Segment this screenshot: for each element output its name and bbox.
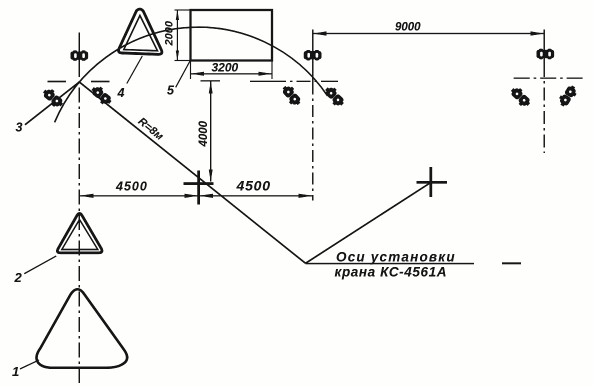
dimension 2000 line <box>176 10 178 61</box>
middle axis vertical line <box>312 30 314 83</box>
dimension 3200 left extension <box>190 61 192 80</box>
triangle 4 inner line <box>124 16 158 51</box>
right axis vertical dash-dot <box>543 64 545 153</box>
svg-text:9000: 9000 <box>395 22 421 34</box>
svg-text:4500: 4500 <box>115 180 148 194</box>
dimension 4000 top arrow <box>209 82 213 94</box>
caption shelf line end dash <box>502 262 521 264</box>
outrigger pads right lower-left <box>508 85 533 109</box>
4500 right arrow <box>299 194 313 198</box>
right axis horizontal dash-dot <box>514 77 583 79</box>
leader for label 1 <box>20 360 39 369</box>
left crane diagonal axis to label 3 <box>25 82 79 125</box>
svg-text:4: 4 <box>117 86 125 100</box>
middle axis horizontal dash-dot <box>250 80 338 82</box>
left crane vertical axis dash-dot lower part <box>78 62 80 386</box>
leader line to cross B <box>306 183 431 264</box>
4500 middle left-pointing arrow <box>199 194 213 198</box>
dimension 3200 line <box>191 73 273 75</box>
crane position cross B <box>417 167 448 197</box>
outrigger pads middle top <box>304 50 322 60</box>
outrigger pads middle lower-right <box>322 84 347 109</box>
svg-text:2000: 2000 <box>164 20 176 46</box>
radius line R=8m diagonal <box>79 82 305 263</box>
right axis vertical line <box>543 30 545 65</box>
leader for label 2 <box>24 256 56 274</box>
dimension 3200 right arrow <box>259 72 272 76</box>
outrigger pads left crane top <box>71 50 89 60</box>
dimension 2000 top extension <box>175 9 191 11</box>
outrigger pads left crane lower-right <box>89 84 114 108</box>
dimension 2000 top arrow <box>176 10 179 20</box>
4500 left arrow at axis <box>80 194 94 198</box>
leader for label 4 <box>127 56 143 84</box>
svg-text:Оси установки: Оси установки <box>336 250 456 265</box>
dimension 4000 line <box>210 81 212 181</box>
svg-text:2: 2 <box>14 270 23 285</box>
dimension 4000 top tick <box>201 80 221 82</box>
svg-text:крана КС-4561А: крана КС-4561А <box>335 265 448 280</box>
triangle 2 inner line <box>62 220 98 250</box>
truck crane gabarit triangle 2 <box>57 214 102 253</box>
left crane vertical axis <box>78 33 80 63</box>
dimension 9000 line <box>313 33 544 35</box>
svg-text:1: 1 <box>12 364 19 379</box>
dimension 4500 4500 chained line <box>79 195 312 197</box>
crane position cross A <box>184 171 214 205</box>
outrigger pads middle lower-left <box>279 83 303 108</box>
svg-text:3200: 3200 <box>212 61 239 75</box>
4500 middle right-pointing arrow <box>185 194 199 198</box>
label 5 leader <box>176 61 190 87</box>
outrigger pads right lower-right <box>557 83 579 109</box>
dimension 2000 bottom extension <box>175 60 191 62</box>
outrigger pads left crane lower-left <box>40 86 65 110</box>
svg-text:4500: 4500 <box>236 178 271 194</box>
dimension 9000 left arrow <box>313 31 326 35</box>
caption shelf line <box>306 263 475 265</box>
middle axis vertical dash-dot <box>312 83 314 201</box>
left crane horizontal axis dashes <box>48 81 110 83</box>
dimension 9000 right arrow <box>531 31 544 35</box>
crane reach arc R=8m <box>55 27 328 122</box>
svg-text:3: 3 <box>16 121 23 135</box>
dimension 4000 bottom arrow <box>209 170 213 182</box>
dimension 3200 left arrow <box>191 72 204 76</box>
excavator gabarit triangle 1 <box>36 289 127 368</box>
svg-text:4000: 4000 <box>198 120 210 147</box>
dimension 3200 right extension <box>271 61 273 80</box>
outrigger pads right top <box>537 49 555 59</box>
dimension 2000 bottom arrow <box>176 51 179 61</box>
portal crane gabarit triangle 4 <box>119 9 162 54</box>
svg-text:5: 5 <box>167 84 175 98</box>
building rectangle 5 <box>191 10 273 61</box>
